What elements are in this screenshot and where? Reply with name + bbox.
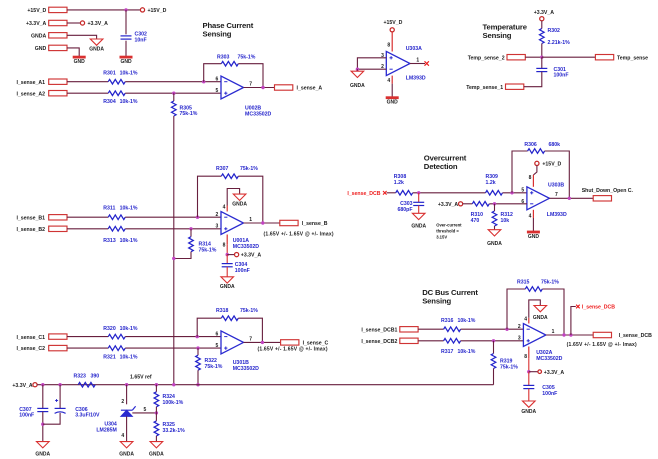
svg-text:75k-1%: 75k-1% [240,166,258,172]
ground GND (U303B) [527,232,540,240]
op-amp U001A MC33502D [216,212,260,251]
svg-text:470: 470 [471,218,480,224]
svg-text:+3.3V_A: +3.3V_A [438,202,459,208]
svg-text:2: 2 [518,324,521,330]
wire pin4 to GND [391,84,393,97]
ground GNDA (R312) [487,230,502,248]
ground GNDA (C307) [35,442,50,458]
svg-text:GNDA: GNDA [149,451,164,457]
wire R322 to 1.65V rail [197,370,199,385]
svg-text:4: 4 [529,214,532,220]
resistor R322 75k-1% [196,355,223,370]
resistor R304 10k-1% [103,91,138,105]
svg-text:75k-1%: 75k-1% [238,55,256,61]
svg-text:5: 5 [216,343,219,349]
svg-text:6: 6 [216,76,219,82]
port I_sense_C [258,340,329,353]
pin 8 U302A [524,347,529,361]
svg-text:+15V_D: +15V_D [148,8,167,14]
wire U304 drop [126,385,128,405]
resistor R308 1.2k [394,174,413,195]
junction GNDA node U303A [356,68,359,71]
wire op-amp C output [244,341,281,343]
wire 1.65V/3.3V rail [37,384,493,386]
wire I_sense_DCB2 to R317 [418,340,444,342]
wire I_sense_B2 to R313 [67,228,108,230]
svg-text:10nF: 10nF [135,38,147,44]
svg-text:680k: 680k [549,142,561,148]
svg-text:I_sense_B: I_sense_B [302,221,328,227]
svg-text:10k-1%: 10k-1% [120,206,138,212]
ground GNDA (R325) [149,442,164,458]
resistor R311 10k-1% [103,206,138,220]
title DC Bus Current Sensing [422,288,478,306]
title Temperature Sensing [483,23,528,41]
resistor R321 10k-1% [103,346,138,361]
svg-text:R323: R323 [74,373,87,379]
resistor R323 390 [74,373,100,387]
svg-text:100nF: 100nF [235,268,250,274]
pin 4 U302A [524,317,529,324]
svg-text:10k-1%: 10k-1% [120,238,138,244]
wire op-amp B output [244,222,280,224]
pin 4 U001A [223,204,228,211]
op-amp U303B LM393D [521,183,567,219]
svg-text:Sensing: Sensing [483,31,512,40]
wire I_sense_C1 to R320 [67,336,108,338]
wire C303 to GNDA [418,206,420,214]
svg-text:1: 1 [249,217,252,223]
svg-text:2.21k-1%: 2.21k-1% [548,40,571,46]
svg-text:(1.65V +/- 1.65V @ +/- Imax): (1.65V +/- 1.65V @ +/- Imax) [264,231,334,237]
wire R324 to node [155,407,157,413]
wire down to GNDA symbol [356,69,358,71]
svg-text:Sensing: Sensing [203,30,232,39]
resistor R319 75k-1% [491,354,518,371]
svg-text:10k-1%: 10k-1% [458,318,476,324]
wire U304 to GNDA [121,416,126,441]
wire I_sense_B1 to R311 [67,216,108,218]
svg-text:4: 4 [524,317,527,323]
port +3.3V_A (input header) [26,20,67,27]
wire node to R314 [190,229,192,237]
svg-text:+3.3V_A: +3.3V_A [241,253,262,259]
svg-text:Sensing: Sensing [422,297,451,306]
port Temp_sense_1 [466,84,524,91]
junction +3.3V tap B [226,253,229,256]
junction output C [261,341,264,344]
svg-text:DC Bus Current: DC Bus Current [422,288,478,297]
svg-text:(1.65V +/- 1.65V @ +/- Imax): (1.65V +/- 1.65V @ +/- Imax) [567,342,637,348]
resistor R305 75k-1% [172,101,198,117]
wire node to R312 [494,204,496,211]
pin 4 U303A [387,76,392,84]
junction pin6 node C [196,335,199,338]
svg-text:+3.3V_A: +3.3V_A [12,383,33,389]
wire feedback A up [204,64,222,82]
junction rail / R322 [196,383,199,386]
svg-text:75k-1%: 75k-1% [240,308,258,314]
svg-text:GNDA: GNDA [31,33,47,39]
power bubble +3.3V_A (ref rail) [12,383,37,389]
capacitor C303 680pF [398,201,425,213]
svg-text:GNDA: GNDA [487,241,502,247]
svg-text:1: 1 [416,57,419,63]
svg-text:75k-1%: 75k-1% [541,279,559,285]
wire pin4 to GNDA [227,189,239,206]
wire GNDA port to ground [67,35,97,39]
svg-text:1: 1 [552,329,555,335]
wire to off-page I_sense_DCB [571,307,576,336]
wire R319 to 1.65V rail corner [493,369,495,385]
pin 8 U303B [529,175,534,187]
wire pin4 U303B to GND [532,218,534,231]
svg-text:GNDA: GNDA [220,284,235,290]
op-amp U002B MC33502D [216,76,272,118]
svg-text:LM393D: LM393D [547,212,567,218]
power bubble +3.3V_A [80,21,108,27]
port Shut_Down_Open C. [582,188,634,201]
power bubble +3.3V_A (U302A) [538,370,564,376]
wire op-amp D output [546,334,593,336]
op-amp U301B MC33502D [216,331,260,372]
svg-text:100nF: 100nF [19,413,34,419]
wire A2 node to R305 [173,93,175,101]
wire I_sense_C2 to R321 [67,347,108,349]
port I_sense_A1 [16,79,67,86]
capacitor C305 100nF [523,385,557,397]
zener U304 LM285M [96,399,135,433]
port Temp_sense_2 [468,55,526,62]
wire C307 drop [42,385,44,409]
svg-text:7: 7 [249,82,252,88]
wire R309 to pin 5 [503,192,527,194]
junction pin2 node D [505,328,508,331]
resistor R317 10k-1% [441,338,476,354]
resistor R303 75k-1% [217,55,256,67]
capacitor C307 100nF [19,407,48,419]
svg-text:I_sense_C: I_sense_C [303,341,329,347]
net label I_sense_DCB (off-page in) [347,191,386,197]
junction output OC [568,197,571,200]
wire R311 to op-amp pin 2 [125,216,221,218]
port I_sense_A [275,85,323,92]
junction +3.3V tap D [527,370,530,373]
svg-text:R317: R317 [441,349,454,355]
resistor R313 10k-1% [103,226,138,244]
wire Temp_sense_1 to C301 [524,72,542,87]
svg-text:Temperature: Temperature [483,23,528,32]
svg-text:100nF: 100nF [542,391,557,397]
power bubble +3.3V_A (threshold) [438,202,463,208]
svg-text:GNDA: GNDA [35,451,50,457]
junction +15V_D / C302 [124,8,127,11]
junction output A [261,86,264,89]
svg-text:R313: R313 [103,238,116,244]
svg-text:Detection: Detection [424,162,458,171]
resistor R316 10k-1% [441,318,476,331]
wire +15V_D to C302 [125,10,127,34]
junction C306 top [58,383,61,386]
svg-text:LM285M: LM285M [96,427,116,433]
wire R304 to op-amp pin 5 [125,92,221,94]
capacitor C304 100nF [222,262,250,274]
svg-text:I_sense_C2: I_sense_C2 [16,346,45,352]
svg-text:Temp_sense: Temp_sense [617,55,648,61]
svg-text:I_sense_A1: I_sense_A1 [16,80,45,86]
wire I_sense_A2 to R304 [67,92,108,94]
wire R321 to op-amp pin 5 [125,347,221,349]
svg-text:75k-1%: 75k-1% [199,248,217,254]
wire feedback OC up [512,151,528,193]
ground GND (under C302) [120,57,133,65]
svg-text:10k-1%: 10k-1% [120,354,138,360]
wire R302 to node [541,44,543,58]
no-connect X U303A output [425,61,429,65]
wire node to Temp_sense port [542,56,596,58]
port I_sense_DCB1 [361,327,418,334]
power bubble +15V_D (U303A) [384,20,403,32]
ground GND (under port) [73,57,86,65]
svg-text:33.2k-1%: 33.2k-1% [163,428,186,434]
svg-text:10k-1%: 10k-1% [120,99,138,105]
junction R322 top [196,346,199,349]
svg-text:+15V_D: +15V_D [384,20,403,26]
wire node to R322 [197,348,199,355]
junction output D (feedback) [562,333,565,336]
svg-text:+15V_D: +15V_D [542,162,561,168]
power bubble +15V_D [140,8,166,14]
junction bus / R314 [172,257,175,260]
svg-text:GNDA: GNDA [232,202,247,208]
svg-text:U303A: U303A [406,46,422,52]
svg-text:8: 8 [529,175,532,181]
wire R320 to op-amp pin 6 [125,336,221,338]
wire feedback A down to output [238,64,263,88]
wire 1.65V bus (R305 down to rail) [173,116,175,385]
pin 8 U001A [223,235,228,249]
svg-text:4: 4 [121,433,124,439]
wire bubble to pin 8 U303B [533,166,537,175]
svg-text:1.65V ref: 1.65V ref [130,374,152,380]
capacitor C306 3.3uF/10V (polarized) [55,399,100,419]
resistor R306 680k [524,142,560,153]
wire R312 to GNDA [494,226,496,230]
port I_sense_B2 [16,226,67,233]
power bubble +3.3V_A (U001A) [235,253,262,259]
junction R305 top [172,92,175,95]
svg-text:100nF: 100nF [554,73,569,79]
junction R324/R325/U304 [155,411,158,414]
svg-text:R321: R321 [103,354,116,360]
wire R325 to GNDA [155,436,157,442]
wire Temp_sense_2 to node [525,56,542,58]
svg-text:Shut_Down_Open C.: Shut_Down_Open C. [582,188,634,194]
junction temp node [540,56,543,59]
svg-text:1.2k: 1.2k [394,180,404,186]
svg-text:75k-1%: 75k-1% [205,364,223,370]
svg-text:8: 8 [524,354,527,360]
svg-text:2: 2 [216,212,219,218]
junction pin6 node A [202,80,205,83]
resistor R309 1.2k [486,174,503,195]
wire R310 to pin 6 [489,203,527,205]
wire R316 to op-amp pin 2 [461,328,524,330]
wire R313 to op-amp pin 3 [125,228,221,230]
svg-text:3: 3 [216,224,219,230]
wire C302 to ground [125,41,127,57]
svg-text:R307: R307 [216,166,229,172]
svg-text:+3.3V_A: +3.3V_A [26,21,47,27]
resistor R314 75k-1% [189,237,217,254]
svg-text:GND: GND [74,59,86,65]
wire U303A output to no-connect [410,63,425,65]
title Overcurrent Detection [424,153,467,171]
wire R308 to R309 [413,192,486,194]
resistor R301 10k-1% [103,71,138,84]
svg-text:Over-current: Over-current [436,223,462,228]
svg-text:I_sense_A: I_sense_A [297,86,323,92]
svg-text:R304: R304 [103,99,116,105]
svg-text:10k-1%: 10k-1% [120,71,138,77]
wire +3.3V_A to bubble [67,22,80,24]
wire R301 to op-amp pin 6 [125,81,221,83]
wire feedback B up [198,176,222,217]
wire C304 to GNDA [226,267,228,277]
power bubble +3.3V_A (temp) [534,10,555,21]
svg-text:+3.3V_A: +3.3V_A [534,10,555,16]
svg-text:R311: R311 [103,206,115,212]
svg-text:GNDA: GNDA [411,223,426,229]
wire feedback C down to output [238,318,262,342]
svg-text:390: 390 [91,373,100,379]
ground GNDA (U001A top) [232,194,247,207]
svg-text:MC33502D: MC33502D [536,356,562,362]
resistor R302 2.21k-1% [540,28,571,46]
junction R324 top [155,383,158,386]
svg-text:2: 2 [121,399,124,405]
ground GNDA (U302A top) [533,306,548,321]
resistor R310 470 [471,202,490,224]
resistor R315 75k-1% [517,279,559,291]
wire I_sense_DCB1 to R316 [418,328,444,330]
wire feedback C up [197,318,221,336]
junction R314 top [189,227,192,230]
wire C306 to ground join [43,413,60,424]
port I_sense_DCB [567,332,653,348]
svg-text:Phase Current: Phase Current [203,21,254,30]
junction output D (off-page) [569,333,572,336]
junction R312 tap [493,202,496,205]
capacitor C301 100nF [536,67,568,79]
port I_sense_B1 [16,215,67,222]
pin 8 U303A [387,32,392,52]
resistor R318 75k-1% [216,308,258,320]
port GNDA (input header) [31,33,67,40]
svg-text:I_sense_DCB: I_sense_DCB [347,191,380,197]
svg-text:MC33502D: MC33502D [245,112,271,118]
wire node to C305 [528,372,530,386]
svg-text:7: 7 [249,336,252,342]
svg-text:I_sense_DCB: I_sense_DCB [582,305,615,311]
svg-text:10k-1%: 10k-1% [120,326,138,332]
wire U303B output [549,197,593,199]
junction U304 top [125,383,128,386]
svg-text:R301: R301 [103,71,116,77]
wire op-amp A output [244,87,275,89]
svg-text:+3.3V_A: +3.3V_A [88,21,109,27]
wire bubble to R310 [463,203,473,205]
ground GND (U303A) [386,98,399,106]
svg-text:3: 3 [518,336,521,342]
svg-text:Overcurrent: Overcurrent [424,153,467,162]
wire pin4 to GNDA (U302A) [529,300,541,318]
net label I_sense_DCB (off-page out) [576,305,615,311]
svg-text:MC33502D: MC33502D [233,366,259,372]
svg-text:GND: GND [387,100,399,106]
svg-text:680pF: 680pF [398,207,413,213]
power bubble +15V_D (U303B) [535,161,562,167]
junction pin2 node B [196,216,199,219]
svg-text:4: 4 [223,204,226,210]
svg-text:3.3uF/10V: 3.3uF/10V [75,413,100,419]
port Temp_sense [595,55,648,62]
svg-text:GNDA: GNDA [350,83,365,89]
wire to bubble B [227,254,234,256]
wire I_sense_A1 to R301 [67,81,108,83]
wire feedback OC down to output [545,151,570,198]
svg-text:5: 5 [216,88,219,94]
junction R319 top [492,339,495,342]
svg-text:3.15V: 3.15V [436,235,447,240]
svg-text:I_sense_DCB2: I_sense_DCB2 [361,339,397,345]
ground GNDA (C304) [220,277,235,290]
op-amp U302A MC33502D [518,324,563,363]
resistor R324 100k-1% [154,392,184,407]
svg-text:7: 7 [555,192,558,198]
wire R317 to op-amp pin 3 [461,340,524,342]
wire C306 drop [59,385,61,408]
svg-text:R303: R303 [217,55,230,61]
wire R314 to 1.65V bus [174,252,191,259]
ground GNDA (U304) [119,442,134,458]
svg-text:75k-1%: 75k-1% [500,364,518,370]
wire U304 feedback pin 5 [132,407,156,413]
svg-text:I_sense_A2: I_sense_A2 [16,91,45,97]
svg-text:8: 8 [387,42,390,48]
ground GNDA (U303A) [350,71,365,89]
svg-text:5: 5 [144,407,147,413]
port I_sense_C2 [16,345,67,352]
wire X to R308 [387,192,396,194]
port I_sense_A2 [16,91,67,98]
svg-text:MC33502D: MC33502D [233,244,259,250]
resistor R325 33.2k-1% [154,421,185,436]
wire GND port to ground bar [67,48,79,56]
svg-text:threshold =: threshold = [436,229,459,234]
svg-text:6: 6 [216,331,219,337]
port I_sense_B [264,220,334,237]
svg-text:I_sense_DCB1: I_sense_DCB1 [361,327,397,333]
capacitor C302 10nF [121,32,148,44]
wire bubble to R302 [541,21,543,29]
port +15V_D (input header) [27,7,67,14]
junction feedback OC [510,191,513,194]
pin 4 U303B [529,210,534,220]
title Phase Current Sensing [203,21,254,39]
wire +15V_D to power bubble [67,9,140,11]
wire pin 3 loop to GNDA [357,58,386,69]
